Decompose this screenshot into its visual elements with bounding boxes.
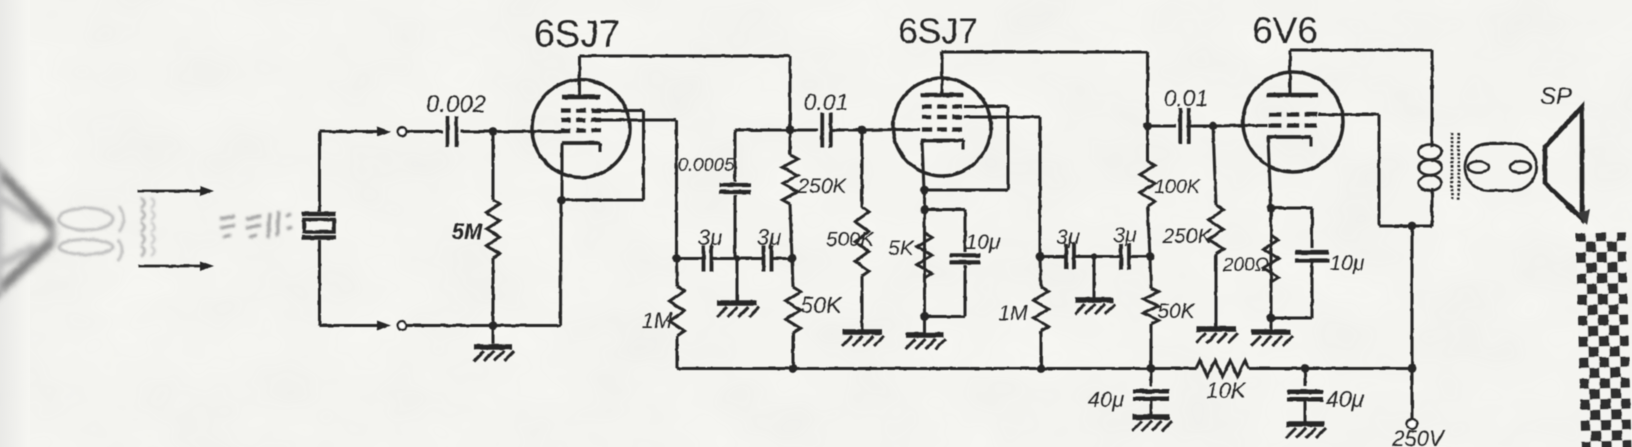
svg-text:10μ: 10μ (966, 231, 1001, 254)
svg-text:200Ω: 200Ω (1222, 255, 1269, 276)
svg-text:250K: 250K (796, 175, 847, 198)
svg-text:10μ: 10μ (1330, 252, 1365, 275)
svg-text:3μ: 3μ (757, 225, 781, 250)
svg-text:1M: 1M (998, 302, 1028, 325)
svg-text:0.01: 0.01 (1164, 85, 1209, 111)
svg-text:250V: 250V (1391, 426, 1446, 447)
svg-text:0.01: 0.01 (804, 89, 849, 115)
svg-text:3μ: 3μ (1113, 224, 1137, 247)
svg-text:5M: 5M (452, 219, 483, 244)
svg-text:3μ: 3μ (698, 225, 722, 250)
svg-text:40μ: 40μ (1088, 387, 1125, 412)
svg-text:40μ: 40μ (1326, 386, 1365, 412)
svg-text:0.0005: 0.0005 (678, 154, 735, 175)
svg-text:0.002: 0.002 (426, 91, 486, 118)
svg-text:6V6: 6V6 (1252, 10, 1318, 51)
svg-text:1M: 1M (642, 308, 673, 333)
svg-text:SP: SP (1540, 83, 1572, 110)
svg-text:10K: 10K (1206, 378, 1246, 403)
svg-text:50K: 50K (1157, 300, 1195, 323)
svg-text:6SJ7: 6SJ7 (534, 14, 621, 56)
svg-text:250K: 250K (1161, 225, 1212, 248)
svg-text:6SJ7: 6SJ7 (898, 12, 978, 51)
svg-text:5K: 5K (888, 237, 915, 260)
svg-text:100K: 100K (1154, 176, 1201, 198)
svg-text:50K: 50K (801, 292, 844, 318)
svg-text:500K: 500K (826, 228, 875, 251)
svg-text:3μ: 3μ (1056, 226, 1080, 249)
